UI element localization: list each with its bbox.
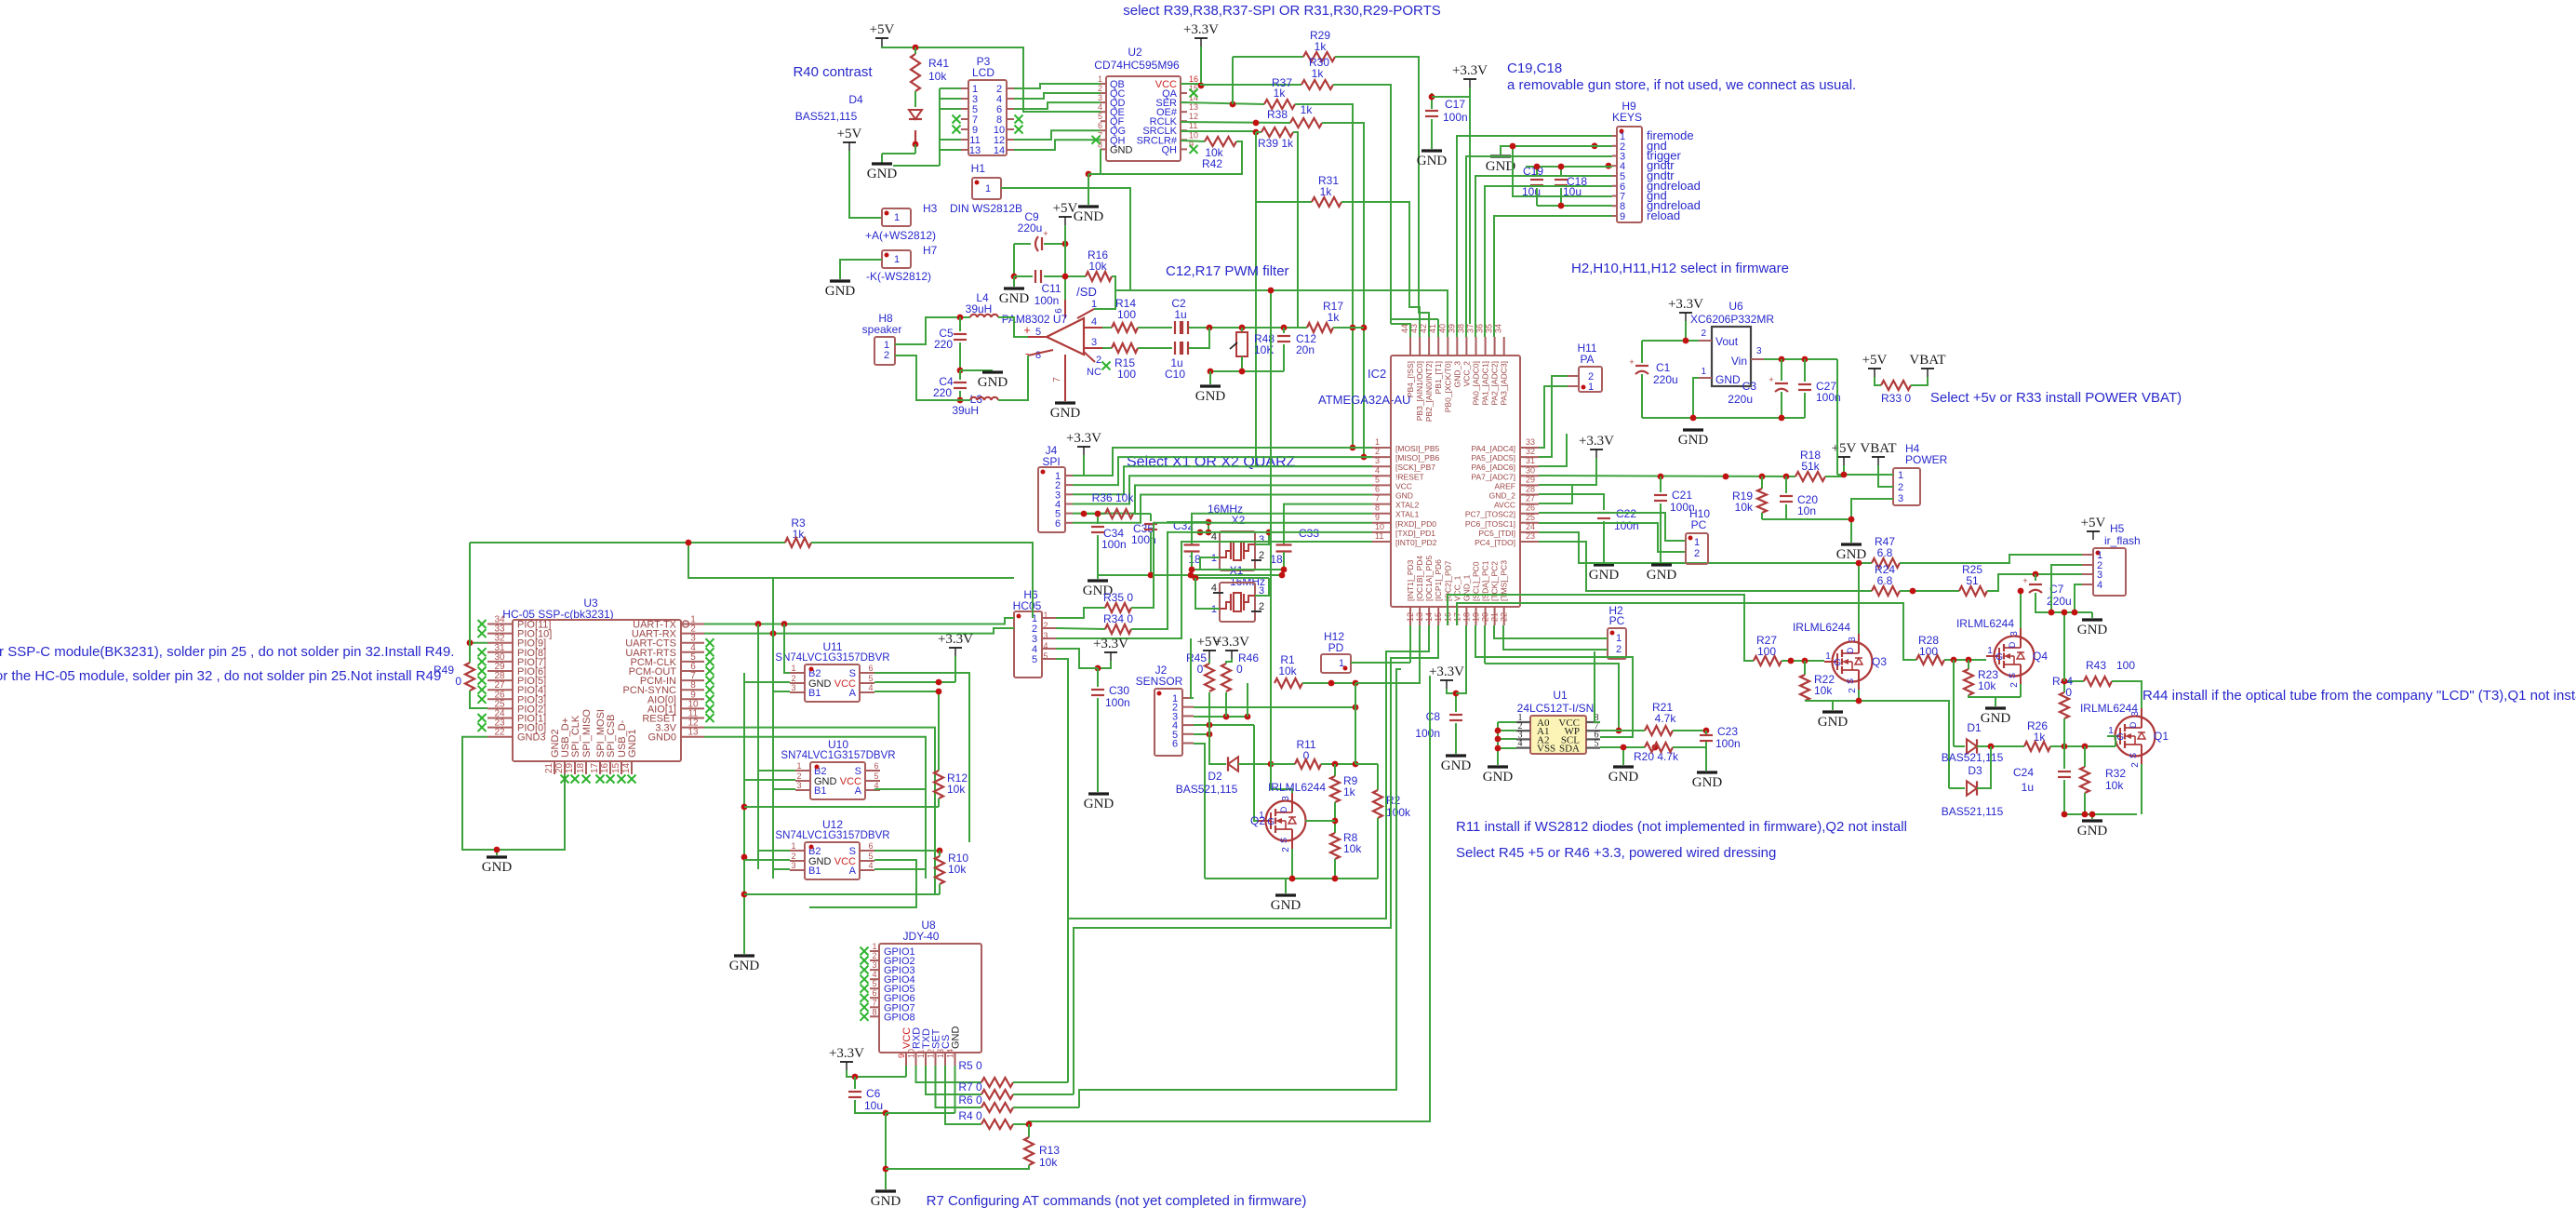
svg-text:GND: GND (2077, 623, 2108, 637)
svg-text:PD: PD (1328, 641, 1344, 654)
svg-text:Q2: Q2 (1250, 814, 1265, 827)
svg-text:9: 9 (1620, 211, 1625, 222)
svg-text:10n: 10n (1797, 504, 1816, 517)
svg-text:9: 9 (897, 1053, 906, 1058)
svg-text:2: 2 (1096, 355, 1101, 366)
svg-text:17: 17 (590, 762, 600, 773)
svg-text:10k: 10k (1978, 679, 1996, 692)
svg-text:14: 14 (621, 762, 632, 773)
svg-text:U10: U10 (828, 738, 848, 751)
svg-text:GND: GND (871, 1194, 901, 1209)
svg-text:+3.3V: +3.3V (938, 632, 973, 647)
svg-text:6.8: 6.8 (1877, 574, 1893, 587)
svg-text:C10: C10 (1165, 368, 1185, 381)
svg-text:1: 1 (1091, 299, 1097, 310)
svg-text:+3.3V: +3.3V (1183, 22, 1219, 37)
svg-text:4: 4 (1211, 583, 1217, 594)
svg-text:PC7_[TOSC2]: PC7_[TOSC2] (1465, 510, 1515, 519)
svg-text:24: 24 (1526, 522, 1535, 531)
svg-text:CD74HC595M96: CD74HC595M96 (1094, 59, 1180, 72)
svg-text:19: 19 (565, 762, 575, 773)
svg-text:14: 14 (1189, 93, 1198, 102)
svg-text:7: 7 (1052, 377, 1062, 382)
svg-text:B1: B1 (814, 785, 826, 797)
svg-text:NC: NC (1087, 367, 1101, 378)
svg-text:R49: R49 (434, 664, 454, 677)
svg-text:5: 5 (868, 674, 873, 683)
svg-text:Select R45 +5 or R46 +3.3, pow: Select R45 +5 or R46 +3.3, powered wired… (1456, 845, 1776, 861)
svg-text:+: + (1629, 357, 1634, 367)
svg-text:2: 2 (1898, 482, 1903, 493)
svg-text:1: 1 (1701, 367, 1706, 377)
svg-text:+3.3V: +3.3V (1066, 431, 1101, 446)
svg-text:C19,C18: C19,C18 (1507, 60, 1562, 76)
svg-text:1: 1 (872, 942, 876, 951)
svg-text:BAS521,115: BAS521,115 (1176, 783, 1238, 796)
svg-text:PA0_[ADC0]: PA0_[ADC0] (1471, 361, 1480, 406)
svg-text:4: 4 (1375, 465, 1380, 475)
svg-text:C1: C1 (1656, 361, 1671, 374)
svg-text:2: 2 (796, 772, 801, 781)
svg-text:25: 25 (1526, 513, 1535, 522)
svg-text:35: 35 (1485, 324, 1494, 333)
svg-text:13: 13 (969, 145, 981, 156)
svg-text:8: 8 (872, 1007, 876, 1016)
svg-text:H1: H1 (971, 162, 986, 175)
svg-text:[INT0]_PD2: [INT0]_PD2 (1395, 538, 1437, 547)
svg-text:1k: 1k (1343, 785, 1356, 798)
svg-text:C8: C8 (1426, 710, 1441, 723)
svg-text:220u: 220u (1018, 221, 1043, 235)
svg-text:C24: C24 (2013, 766, 2034, 779)
svg-text:39uH: 39uH (952, 404, 979, 417)
svg-text:100: 100 (1117, 308, 1136, 321)
svg-text:10k: 10k (948, 863, 967, 876)
svg-text:4: 4 (868, 683, 873, 692)
svg-text:GND_1: GND_1 (1462, 574, 1471, 601)
svg-text:+: + (2022, 576, 2027, 585)
svg-text:!RESET: !RESET (1395, 472, 1424, 481)
svg-text:A: A (849, 688, 857, 699)
svg-text:GND: GND (1074, 209, 1104, 224)
svg-text:5: 5 (1595, 739, 1599, 749)
svg-text:PB2_[AIN0/INT2]: PB2_[AIN0/INT2] (1424, 361, 1434, 422)
svg-text:15: 15 (611, 762, 621, 773)
svg-text:U2: U2 (1128, 46, 1142, 59)
svg-text:+: + (1023, 323, 1031, 337)
svg-text:16: 16 (600, 762, 610, 773)
svg-text:21: 21 (544, 762, 554, 773)
svg-text:13: 13 (687, 728, 699, 738)
svg-text:D3: D3 (1968, 764, 1982, 777)
svg-text:4: 4 (1518, 739, 1523, 749)
svg-text:[MOSI]_PB5: [MOSI]_PB5 (1395, 444, 1440, 453)
svg-text:19: 19 (1471, 612, 1480, 622)
svg-text:GND: GND (1678, 433, 1709, 448)
svg-text:2: 2 (1848, 688, 1858, 693)
svg-text:R40 contrast: R40 contrast (793, 64, 873, 80)
svg-text:10: 10 (907, 1049, 916, 1058)
svg-text:KEYS: KEYS (1612, 111, 1642, 124)
svg-text:U11: U11 (822, 640, 842, 653)
svg-text:R33 0: R33 0 (1881, 392, 1911, 405)
svg-text:3: 3 (1848, 637, 1858, 642)
svg-text:PA4_[ADC4]: PA4_[ADC4] (1471, 444, 1515, 453)
svg-text:2: 2 (1043, 621, 1048, 630)
svg-text:0: 0 (1197, 663, 1204, 676)
svg-text:QH: QH (1162, 144, 1178, 155)
svg-text:20: 20 (1481, 612, 1490, 622)
svg-text:4: 4 (868, 861, 873, 870)
svg-text:VCC_1: VCC_1 (1452, 575, 1462, 601)
svg-text:For the HC-05 module, solder p: For the HC-05 module, solder pin 32 , do… (0, 668, 441, 684)
svg-text:PA1_[ADC1]: PA1_[ADC1] (1481, 361, 1490, 406)
svg-text:1: 1 (791, 664, 795, 673)
svg-text:100: 100 (1117, 368, 1136, 381)
svg-text:Q3: Q3 (1872, 655, 1887, 668)
svg-text:+3.3V: +3.3V (829, 1046, 864, 1061)
svg-text:18: 18 (1270, 553, 1283, 566)
svg-text:Vin: Vin (1731, 355, 1747, 368)
svg-text:R39 1k: R39 1k (1258, 137, 1294, 150)
svg-text:SPI_CSB: SPI_CSB (606, 715, 617, 758)
svg-text:14: 14 (1424, 612, 1434, 622)
svg-text:C30: C30 (1109, 684, 1129, 697)
svg-text:18: 18 (1462, 612, 1471, 622)
svg-text:PA: PA (1580, 353, 1594, 366)
svg-text:GND_2: GND_2 (1489, 491, 1516, 501)
svg-text:100n: 100n (1101, 538, 1127, 551)
svg-text:GND: GND (1441, 758, 1472, 773)
svg-text:22: 22 (494, 728, 505, 738)
svg-text:GND: GND (1050, 406, 1081, 421)
svg-text:SN74LVC1G3157DBVR: SN74LVC1G3157DBVR (775, 830, 889, 841)
svg-text:12: 12 (927, 1049, 936, 1058)
svg-text:+3.3V: +3.3V (1579, 434, 1614, 449)
svg-text:PAM8302 U7: PAM8302 U7 (1002, 313, 1068, 326)
svg-text:3: 3 (2009, 631, 2020, 637)
svg-text:2: 2 (791, 852, 795, 861)
svg-text:D1: D1 (1967, 721, 1982, 734)
svg-text:SPI_CLK: SPI_CLK (570, 715, 581, 758)
svg-text:21: 21 (1490, 612, 1500, 622)
svg-text:GND3: GND3 (517, 732, 546, 744)
svg-text:29: 29 (1526, 475, 1535, 484)
svg-text:X2: X2 (1232, 514, 1246, 527)
svg-text:10k: 10k (1039, 1156, 1058, 1169)
svg-text:100n: 100n (1105, 696, 1130, 709)
svg-text:GND: GND (1486, 159, 1516, 174)
svg-text:JDY-40: JDY-40 (903, 930, 940, 943)
svg-text:20: 20 (554, 762, 565, 773)
svg-text:12: 12 (1406, 612, 1415, 622)
svg-text:33: 33 (1526, 437, 1535, 447)
svg-text:4: 4 (1091, 316, 1097, 328)
svg-text:3: 3 (2130, 711, 2141, 717)
svg-text:R13: R13 (1039, 1144, 1060, 1157)
svg-text:[RXD]_PD0: [RXD]_PD0 (1395, 519, 1436, 529)
svg-text:5: 5 (1032, 654, 1037, 665)
svg-text:1: 1 (1043, 610, 1048, 620)
svg-text:5: 5 (874, 772, 878, 781)
svg-text:14: 14 (946, 1049, 955, 1058)
svg-text:R7 0: R7 0 (958, 1080, 982, 1094)
svg-text:PA5_[ADC5]: PA5_[ADC5] (1471, 453, 1515, 463)
svg-text:13: 13 (1415, 612, 1424, 622)
svg-text:GND1: GND1 (627, 729, 638, 758)
svg-text:2: 2 (2009, 682, 2020, 688)
svg-text:5: 5 (1375, 475, 1380, 484)
svg-text:B1: B1 (808, 688, 821, 699)
svg-text:H2,H10,H11,H12 select in firmw: H2,H10,H11,H12 select in firmware (1571, 261, 1789, 276)
svg-text:220: 220 (933, 386, 952, 399)
svg-text:GND: GND (1084, 797, 1114, 812)
svg-text:10: 10 (1375, 522, 1384, 531)
svg-text:6: 6 (1055, 518, 1061, 530)
svg-text:3: 3 (1043, 631, 1048, 640)
svg-text:6: 6 (868, 841, 873, 851)
svg-text:VSS: VSS (1537, 744, 1555, 755)
svg-text:GND: GND (1981, 711, 2011, 726)
svg-text:10u: 10u (864, 1099, 883, 1112)
svg-text:22: 22 (1500, 612, 1509, 622)
svg-text:+3.3V: +3.3V (1668, 297, 1703, 312)
svg-text:PB0_[XCK/T0]: PB0_[XCK/T0] (1443, 361, 1452, 412)
svg-text:GND: GND (978, 375, 1008, 390)
svg-text:6: 6 (1375, 485, 1380, 494)
svg-text:ir_flash: ir_flash (2104, 534, 2141, 547)
svg-text:2: 2 (1694, 548, 1700, 559)
svg-text:XTAL1: XTAL1 (1395, 510, 1420, 519)
svg-text:100n: 100n (1443, 111, 1468, 124)
svg-text:13: 13 (936, 1049, 945, 1058)
svg-text:/SD: /SD (1076, 285, 1097, 299)
svg-text:H5: H5 (2110, 522, 2125, 535)
svg-text:GND: GND (1395, 491, 1413, 501)
svg-text:LCD: LCD (972, 66, 994, 79)
svg-text:SN74LVC1G3157DBVR: SN74LVC1G3157DBVR (775, 652, 889, 664)
svg-text:IRLML6244: IRLML6244 (1956, 617, 2014, 630)
svg-text:4: 4 (1043, 641, 1048, 651)
svg-text:PA7_[ADC7]: PA7_[ADC7] (1471, 472, 1515, 481)
svg-text:1: 1 (791, 841, 795, 851)
svg-text:IRLML6244: IRLML6244 (1793, 621, 1850, 634)
svg-text:G: G (2116, 732, 2124, 743)
svg-text:1: 1 (1898, 470, 1903, 481)
svg-text:[OC1A]_PD5: [OC1A]_PD5 (1424, 556, 1434, 601)
svg-text:R5 0: R5 0 (958, 1059, 982, 1072)
svg-text:GND: GND (1647, 568, 1677, 583)
svg-text:GND: GND (482, 860, 513, 875)
svg-text:S: S (2129, 753, 2138, 758)
svg-text:SPI_MISO: SPI_MISO (581, 709, 593, 758)
svg-text:R4 0: R4 0 (958, 1109, 982, 1122)
svg-text:PA3_[ADC3]: PA3_[ADC3] (1500, 361, 1509, 406)
svg-text:5: 5 (1043, 651, 1048, 661)
svg-text:SENSOR: SENSOR (1136, 675, 1183, 688)
svg-text:18: 18 (576, 762, 586, 773)
svg-text:HC05: HC05 (1013, 599, 1042, 612)
svg-text:100n: 100n (1034, 294, 1060, 307)
svg-text:8: 8 (1375, 503, 1380, 513)
svg-text:U1: U1 (1553, 689, 1568, 702)
svg-text:AVCC: AVCC (1494, 501, 1515, 510)
svg-text:10k: 10k (2105, 779, 2124, 792)
svg-text:10k: 10k (1735, 501, 1754, 514)
svg-text:GND: GND (1818, 715, 1849, 730)
svg-text:3: 3 (791, 861, 795, 870)
svg-text:100n: 100n (1715, 737, 1741, 750)
svg-text:PC5_[TDI]: PC5_[TDI] (1478, 529, 1515, 538)
svg-text:A: A (849, 865, 857, 877)
svg-text:D: D (2129, 721, 2138, 728)
svg-text:15: 15 (1189, 84, 1198, 93)
svg-text:select R39,R38,R37-SPI OR R31,: select R39,R38,R37-SPI OR R31,R30,R29-PO… (1123, 3, 1441, 19)
svg-text:6: 6 (1172, 739, 1178, 750)
svg-text:1u: 1u (1174, 308, 1186, 321)
svg-text:C33: C33 (1299, 527, 1319, 540)
svg-text:5: 5 (1098, 112, 1102, 121)
svg-text:26: 26 (1526, 503, 1535, 513)
svg-text:U6: U6 (1728, 300, 1743, 313)
svg-text:2: 2 (1259, 550, 1264, 561)
svg-text:2: 2 (1375, 447, 1380, 456)
svg-text:4: 4 (1098, 102, 1102, 112)
svg-text:23: 23 (1526, 531, 1535, 541)
svg-text:1k: 1k (1320, 185, 1333, 198)
svg-text:XTAL2: XTAL2 (1395, 501, 1420, 510)
svg-text:3: 3 (1281, 796, 1291, 801)
svg-text:+5V: +5V (1862, 353, 1888, 368)
svg-text:R43: R43 (2086, 659, 2106, 672)
svg-text:1: 1 (1825, 651, 1831, 662)
svg-text:H3: H3 (923, 202, 938, 215)
svg-text:C6: C6 (866, 1087, 881, 1100)
svg-text:2: 2 (1281, 847, 1291, 852)
svg-text:D: D (1279, 806, 1288, 812)
svg-text:2: 2 (1701, 329, 1706, 339)
svg-text:BAS521,115: BAS521,115 (1942, 751, 2004, 764)
svg-text:+5V: +5V (1832, 441, 1857, 456)
svg-text:S: S (1279, 838, 1288, 843)
svg-text:10k: 10k (928, 70, 947, 83)
svg-text:GND_3: GND_3 (1452, 361, 1462, 388)
svg-text:PB3_[AIN1/OC0]: PB3_[AIN1/OC0] (1415, 361, 1424, 421)
svg-text:PC: PC (1691, 518, 1707, 531)
svg-text:36: 36 (1475, 324, 1485, 333)
svg-text:XC6206P332MR: XC6206P332MR (1690, 313, 1774, 326)
svg-text:2: 2 (872, 951, 876, 960)
svg-text:BAS521,115: BAS521,115 (1942, 805, 2004, 818)
svg-text:12: 12 (1189, 112, 1198, 121)
svg-text:GND: GND (1271, 898, 1301, 913)
svg-text:VCC_2: VCC_2 (1462, 361, 1471, 387)
svg-text:PC4_[TDO]: PC4_[TDO] (1475, 538, 1515, 547)
svg-text:1: 1 (1588, 382, 1594, 393)
svg-text:SDA: SDA (1559, 744, 1580, 755)
svg-text:C21: C21 (1672, 489, 1692, 502)
svg-text:ATMEGA32A-AU: ATMEGA32A-AU (1318, 393, 1410, 407)
svg-text:-K(-WS2812): -K(-WS2812) (866, 270, 931, 283)
svg-text:[SCK]_PB7: [SCK]_PB7 (1395, 463, 1435, 472)
svg-text:GND: GND (867, 167, 898, 181)
svg-text:GND: GND (729, 959, 760, 973)
svg-text:1: 1 (894, 212, 900, 223)
svg-text:0: 0 (455, 675, 461, 688)
svg-text:PB4_[!SS]: PB4_[!SS] (1406, 361, 1415, 397)
svg-text:220: 220 (934, 338, 953, 351)
svg-text:28: 28 (1526, 485, 1535, 494)
svg-text:R44 install if the optical tub: R44 install if the optical tube from the… (2142, 688, 2576, 704)
svg-text:1k: 1k (1328, 311, 1341, 324)
svg-text:6: 6 (872, 988, 876, 998)
svg-text:B1: B1 (808, 865, 821, 877)
svg-text:D2: D2 (1208, 770, 1222, 783)
svg-text:A: A (855, 785, 862, 797)
svg-text:31: 31 (1526, 456, 1535, 465)
svg-text:1k: 1k (1274, 87, 1287, 100)
svg-text:3: 3 (791, 683, 795, 692)
svg-text:220u: 220u (1653, 373, 1678, 386)
svg-text:GND: GND (1483, 770, 1514, 785)
svg-text:100n: 100n (1415, 727, 1440, 740)
svg-text:a removable gun store, if not: a removable gun store, if not used, we c… (1507, 77, 1856, 93)
svg-text:G: G (1267, 817, 1275, 827)
svg-text:+3.3V: +3.3V (1093, 637, 1128, 651)
svg-text:3: 3 (1375, 456, 1380, 465)
svg-text:7: 7 (1375, 494, 1380, 503)
svg-text:GND: GND (1715, 373, 1741, 386)
svg-text:1: 1 (985, 183, 991, 195)
svg-text:GND: GND (825, 284, 856, 299)
svg-text:20n: 20n (1296, 343, 1315, 356)
svg-text:2: 2 (884, 350, 889, 361)
svg-text:8: 8 (1035, 350, 1041, 361)
svg-text:1: 1 (1987, 646, 1993, 656)
svg-text:6: 6 (874, 761, 878, 771)
svg-text:6.8: 6.8 (1877, 546, 1893, 559)
svg-text:1: 1 (1694, 537, 1700, 548)
svg-text:G: G (1995, 652, 2003, 663)
svg-text:reload: reload (1647, 208, 1680, 222)
svg-text:+3.3V: +3.3V (1214, 635, 1249, 650)
svg-text:C12,R17 PWM filter: C12,R17 PWM filter (1166, 263, 1289, 279)
svg-text:[OC1B]_PD4: [OC1B]_PD4 (1415, 556, 1424, 601)
svg-text:27: 27 (1526, 494, 1535, 503)
svg-text:220u: 220u (1728, 393, 1753, 406)
svg-text:R32: R32 (2105, 767, 2126, 780)
svg-text:PC6_[TOSC1]: PC6_[TOSC1] (1465, 519, 1515, 529)
svg-text:GND0: GND0 (647, 732, 676, 744)
svg-text:+: + (1768, 375, 1773, 384)
svg-text:C3: C3 (1742, 380, 1757, 393)
svg-text:PA2_[ADC2]: PA2_[ADC2] (1490, 361, 1500, 406)
svg-text:PC: PC (1609, 614, 1625, 627)
svg-text:+5V: +5V (1053, 201, 1078, 216)
svg-text:18: 18 (1188, 553, 1201, 566)
svg-text:2: 2 (1616, 644, 1622, 655)
svg-text:D: D (1846, 647, 1855, 653)
svg-text:SPI: SPI (1042, 455, 1060, 468)
svg-text:2: 2 (1098, 84, 1102, 93)
svg-text:+3.3V: +3.3V (1452, 63, 1488, 78)
svg-text:C23: C23 (1717, 725, 1738, 738)
svg-text:39: 39 (1447, 324, 1456, 333)
svg-text:[ICP1]_PD6: [ICP1]_PD6 (1434, 559, 1443, 601)
svg-text:10k: 10k (1814, 684, 1833, 697)
svg-text:Q1: Q1 (2154, 730, 2169, 743)
svg-text:1: 1 (1616, 633, 1622, 644)
